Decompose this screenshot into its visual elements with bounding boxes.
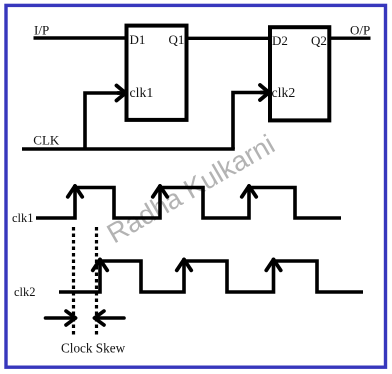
svg-text:D1: D1: [130, 32, 146, 47]
svg-text:O/P: O/P: [350, 23, 370, 38]
arrowhead clk2 rising edge 1: [93, 260, 107, 271]
arrowhead clk1 rising edge 1: [68, 186, 82, 197]
skew arrow right (points left): [95, 311, 125, 325]
wire clk2 waveform: [59, 261, 363, 292]
wire CLK bus: [22, 147, 235, 150]
svg-text:clk2: clk2: [272, 85, 296, 100]
arrowhead clk1 rising edge 3: [242, 186, 256, 197]
flip-flop U1 box: [127, 26, 187, 120]
svg-text:I/P: I/P: [34, 23, 49, 38]
svg-text:D2: D2: [272, 33, 288, 48]
arrowhead into clk2: [260, 85, 269, 100]
arrowhead clk2 rising edge 2: [177, 260, 191, 271]
dotted guide line at clk2 edge: [95, 227, 98, 335]
arrowhead into clk1: [117, 86, 126, 101]
svg-text:Q2: Q2: [311, 33, 327, 48]
svg-text:clk1: clk1: [12, 211, 34, 225]
wire Q1 to D2: [187, 37, 271, 40]
wire Q2 to O/P: [329, 37, 370, 40]
svg-text:Q1: Q1: [169, 32, 185, 47]
arrowhead clk2 rising edge 3: [266, 260, 280, 271]
dotted guide line at clk1 edge: [72, 227, 75, 335]
wire clk1 waveform: [36, 188, 341, 219]
skew arrow left (points right): [46, 311, 76, 325]
wire CLK branch to clk1: [85, 93, 120, 149]
arrowhead clk1 rising edge 2: [153, 186, 167, 197]
flip-flop U2 box: [270, 27, 329, 120]
svg-text:Clock Skew: Clock Skew: [61, 341, 126, 356]
wire I/P to D1: [34, 36, 129, 39]
svg-text:clk2: clk2: [14, 285, 36, 299]
wire CLK branch to clk2: [233, 93, 264, 150]
svg-text:CLK: CLK: [33, 133, 60, 148]
svg-text:clk1: clk1: [130, 85, 154, 100]
